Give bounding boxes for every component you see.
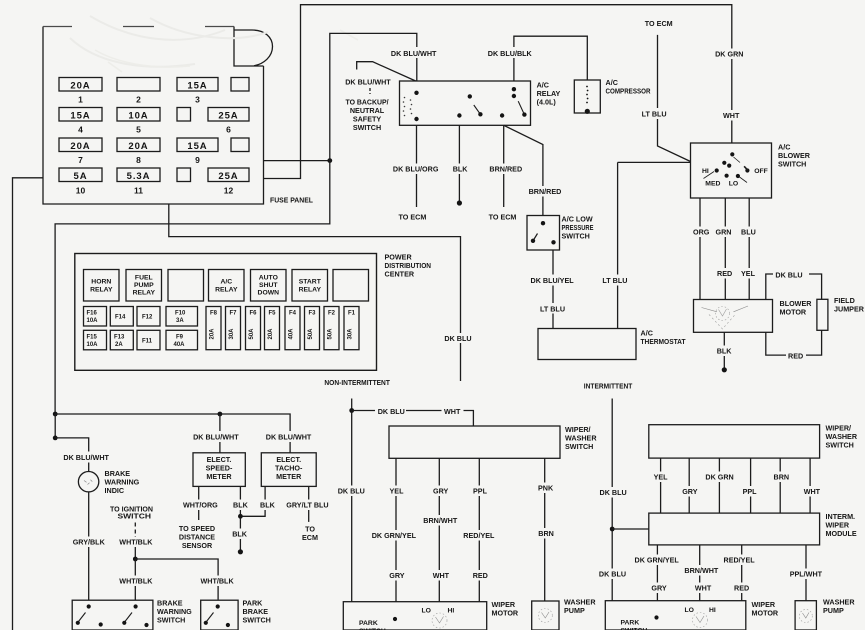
label YEL — [388, 486, 405, 497]
svg-text:A/C: A/C — [220, 279, 232, 286]
svg-text:10A: 10A — [87, 342, 99, 348]
svg-text:DK BLU/YEL: DK BLU/YEL — [531, 276, 575, 285]
label BLK tachometer — [258, 500, 276, 511]
label LT BLU upper — [639, 108, 670, 119]
label POWER DISTRIBUTION CENTER — [385, 253, 432, 279]
svg-text:WHT: WHT — [433, 571, 450, 580]
label RED low — [471, 570, 489, 581]
label BRAKE WARNING SWITCH — [157, 599, 192, 625]
svg-text:RELAY: RELAY — [133, 290, 156, 297]
label BLOWER MOTOR — [780, 299, 813, 317]
svg-text:F11: F11 — [142, 338, 153, 344]
node corner dot — [53, 436, 58, 441]
svg-text:SWITCH: SWITCH — [353, 123, 381, 132]
wire node down left down distribution — [55, 161, 330, 414]
svg-text:HI: HI — [448, 608, 455, 615]
svg-text:LO: LO — [729, 180, 738, 187]
label RED jumper — [786, 351, 806, 362]
compressor internal dotted — [586, 86, 588, 104]
svg-text:4: 4 — [78, 125, 83, 135]
label DK BLU/WHT top run — [388, 47, 438, 58]
label BLK — [451, 164, 468, 175]
label FIELD JUMPER — [834, 296, 865, 314]
svg-text:BLK: BLK — [232, 530, 248, 539]
svg-text:FUEL: FUEL — [135, 275, 153, 282]
label PARK BRAKE SWITCH — [243, 599, 271, 625]
svg-text:HORN: HORN — [91, 279, 111, 286]
label DK BLU/BLK — [485, 47, 534, 58]
label DK GRN/YEL right — [632, 555, 679, 566]
wire relay BLK ground — [458, 125, 460, 201]
wire module to wiper motor GRY — [656, 545, 658, 601]
wire BLK speedometer ground — [239, 486, 241, 549]
thermostat A/C THERMOSTAT box — [538, 329, 636, 360]
svg-text:20A: 20A — [210, 328, 216, 340]
svg-text:LT BLU: LT BLU — [642, 110, 667, 119]
label RED right low — [732, 583, 750, 594]
label BRAKE WARNING INDIC — [105, 469, 140, 495]
fuse F3 50A — [305, 307, 320, 350]
op A/C relay box — [400, 81, 531, 125]
label BRN/RED lower — [526, 186, 561, 197]
svg-text:F9: F9 — [176, 334, 184, 340]
svg-text:DK GRN/YEL: DK GRN/YEL — [635, 556, 680, 565]
svg-text:BLK: BLK — [453, 165, 469, 174]
label WHT right low — [693, 583, 712, 594]
svg-text:(4.0L): (4.0L) — [537, 98, 557, 107]
fuse 1 20A — [59, 78, 102, 105]
label DK GRN/YEL — [370, 530, 417, 541]
label RED/YEL right — [721, 555, 755, 566]
svg-text:2A: 2A — [115, 342, 123, 348]
svg-text:WHT/ORG: WHT/ORG — [183, 501, 218, 510]
fuse F12 — [137, 307, 160, 327]
fuse F6 50A — [246, 307, 261, 350]
wire GRY to wiper motor — [438, 458, 440, 601]
svg-text:DK GRN: DK GRN — [715, 50, 743, 59]
fuse panel outline — [43, 16, 358, 204]
svg-text:WHT/BLK: WHT/BLK — [119, 577, 153, 586]
svg-text:MOTOR: MOTOR — [780, 308, 807, 317]
wire low pressure switch to thermostat — [552, 250, 554, 329]
wire module to wiper motor RED — [741, 545, 743, 601]
A/C relay right contact — [500, 87, 527, 118]
dashed wire to backup switch — [369, 88, 371, 94]
svg-text:HI: HI — [709, 607, 716, 614]
svg-text:F14: F14 — [115, 315, 126, 321]
svg-text:GRY: GRY — [682, 487, 698, 496]
svg-text:METER: METER — [206, 472, 232, 481]
svg-text:GRY/LT BLU: GRY/LT BLU — [286, 501, 328, 510]
fuse row2 small — [177, 108, 191, 122]
svg-text:F12: F12 — [142, 315, 153, 321]
label GRY right — [680, 486, 698, 497]
label A/C RELAY (4.0L) — [537, 81, 561, 107]
label WHT/ORG — [181, 500, 219, 511]
relay AUTO SHUT DOWN — [251, 270, 287, 302]
wire branch to speedometer — [219, 414, 221, 453]
svg-text:TO ECM: TO ECM — [399, 213, 427, 222]
svg-text:DK BLU: DK BLU — [338, 487, 365, 496]
wire DK BLU WHT across to wiper washer switch — [352, 411, 474, 427]
wiper motor right internals — [621, 607, 716, 630]
washer pump right glyph — [799, 610, 812, 623]
svg-text:TO ECM: TO ECM — [489, 213, 517, 222]
wire fuse panel left to border — [13, 178, 44, 630]
node junction dot — [327, 158, 332, 163]
svg-text:SHUT: SHUT — [259, 282, 278, 289]
svg-text:15A: 15A — [70, 110, 90, 121]
svg-text:DK GRN/YEL: DK GRN/YEL — [372, 531, 417, 540]
svg-text:NON-INTERMITTENT: NON-INTERMITTENT — [324, 378, 390, 387]
switch WIPER/WASHER SWITCH right box — [649, 425, 820, 458]
ground terminal dot BLK meters — [238, 549, 243, 554]
svg-text:THERMOSTAT: THERMOSTAT — [641, 337, 687, 346]
label WIPER/WASHER SWITCH right — [826, 424, 858, 450]
svg-text:RED/YEL: RED/YEL — [463, 531, 495, 540]
compressor terminal dot — [585, 109, 590, 114]
svg-text:12: 12 — [224, 186, 234, 196]
wire module to wiper motor WHT — [699, 545, 701, 601]
svg-text:20A: 20A — [70, 141, 90, 152]
svg-text:PPL/WHT: PPL/WHT — [790, 570, 823, 579]
svg-text:F13: F13 — [114, 334, 125, 340]
power distribution center box — [75, 254, 377, 371]
node ignition junction dot — [133, 557, 138, 562]
svg-text:INDIC: INDIC — [105, 486, 125, 495]
fuse F2 50A — [324, 307, 339, 350]
wire ORG blower switch to motor — [699, 198, 701, 300]
svg-text:GRN: GRN — [716, 228, 732, 237]
A/C relay internal coil dots — [403, 97, 413, 117]
wiper motor right glyph — [693, 613, 708, 628]
node wiper DK BLU junction — [349, 408, 354, 413]
svg-text:RED: RED — [788, 352, 803, 361]
label WHT/BLK upper — [117, 537, 154, 548]
svg-text:MOTOR: MOTOR — [492, 609, 519, 618]
wire relay BRN/RED to ECM — [503, 125, 505, 207]
motor WIPER MOTOR left box — [343, 602, 486, 630]
svg-text:JUMPER: JUMPER — [834, 305, 865, 314]
blower switch contact dots — [715, 152, 750, 178]
module INTERM WIPER MODULE box — [649, 513, 820, 545]
label DK BLU/YEL — [528, 275, 575, 286]
wire ignition to junction — [134, 536, 136, 559]
svg-text:SWITCH: SWITCH — [826, 441, 854, 450]
label PPL right — [741, 486, 759, 497]
svg-text:LO: LO — [685, 607, 694, 614]
svg-text:GRY: GRY — [651, 584, 667, 593]
wire BLK tachometer join — [240, 486, 265, 516]
label TO IGNITION SWITCH — [110, 505, 153, 521]
svg-text:F5: F5 — [268, 311, 276, 317]
label BRN right — [771, 472, 789, 483]
svg-text:WHT/BLK: WHT/BLK — [119, 538, 153, 547]
fuse F14 — [110, 307, 133, 327]
label TO BACKUP/NEUTRAL SAFETY SWITCH — [346, 98, 389, 133]
label BLK speedometer — [231, 500, 249, 511]
svg-text:RELAY: RELAY — [299, 287, 322, 294]
label GRN — [714, 227, 734, 238]
svg-text:DK BLU/WHT: DK BLU/WHT — [266, 433, 312, 442]
wire junction to brake warning switch — [134, 559, 136, 600]
svg-text:PUMP: PUMP — [564, 606, 585, 615]
svg-text:20A: 20A — [128, 141, 148, 152]
label DK GRN — [713, 49, 745, 60]
label BRN/WHT right — [682, 565, 719, 576]
svg-text:YEL: YEL — [741, 269, 756, 278]
wire junction to park brake switch — [135, 559, 218, 600]
svg-text:DK BLU/WHT: DK BLU/WHT — [345, 78, 391, 87]
switch PARK BRAKE SWITCH box — [201, 600, 238, 630]
svg-text:F7: F7 — [229, 311, 237, 317]
wire fuse panel right upper to node — [264, 160, 330, 162]
svg-text:RELAY: RELAY — [215, 287, 238, 294]
svg-text:5A: 5A — [74, 171, 88, 182]
svg-text:BRN: BRN — [538, 529, 554, 538]
labels HI MED LO OFF — [702, 168, 768, 188]
svg-text:20A: 20A — [268, 328, 274, 340]
ground terminal dot blower — [722, 367, 727, 372]
svg-text:GRY/BLK: GRY/BLK — [73, 538, 106, 547]
label A/C LOW PRESSURE SWITCH — [562, 215, 594, 241]
svg-text:1: 1 — [78, 95, 83, 105]
svg-text:BLU: BLU — [741, 228, 756, 237]
node BLK junction dot — [238, 514, 243, 519]
label ORG — [691, 227, 710, 238]
meter ELECT. TACHOMETER box — [261, 453, 316, 487]
label WIPER MOTOR right — [752, 600, 779, 618]
svg-text:WHT: WHT — [804, 487, 821, 496]
svg-text:3A: 3A — [176, 318, 184, 324]
label GRY/LT BLU — [284, 500, 329, 511]
wire YEL to wiper motor — [395, 458, 397, 601]
svg-text:RED/YEL: RED/YEL — [724, 556, 756, 565]
svg-text:F4: F4 — [289, 311, 297, 317]
fuse 9 15A — [177, 138, 218, 165]
fuse F10 3A — [166, 307, 198, 327]
svg-text:30A: 30A — [348, 328, 354, 340]
fuse 4 15A — [59, 108, 102, 135]
svg-text:YEL: YEL — [390, 487, 405, 496]
A/C relay pin dots left — [414, 91, 418, 95]
svg-text:50A: 50A — [308, 328, 314, 340]
svg-text:DK BLU/WHT: DK BLU/WHT — [391, 49, 437, 58]
svg-text:SENSOR: SENSOR — [182, 541, 213, 550]
wiper motor left glyph — [432, 613, 447, 628]
svg-text:GRY: GRY — [389, 571, 405, 580]
svg-text:BLK: BLK — [260, 501, 276, 510]
svg-text:PUMP: PUMP — [134, 282, 154, 289]
svg-text:DOWN: DOWN — [258, 290, 280, 297]
svg-text:5.3A: 5.3A — [127, 171, 151, 182]
svg-text:WHT/BLK: WHT/BLK — [201, 577, 235, 586]
wire DK BLU/BLK to relay and compressor — [514, 36, 587, 81]
wire corner to indicator — [55, 438, 88, 471]
wire stub to backup/neutral safety switch — [357, 62, 416, 81]
label BRN/WHT — [421, 515, 458, 526]
svg-text:MODULE: MODULE — [826, 529, 857, 538]
wire relay split to low pressure switch — [504, 125, 543, 215]
label BLK blower — [715, 346, 735, 357]
label A/C COMPRESSOR — [606, 78, 652, 96]
ground terminal dot BLK — [457, 200, 462, 205]
svg-text:BRN: BRN — [774, 473, 790, 482]
dashed wire from ignition switch — [134, 523, 136, 537]
svg-text:BRN/RED: BRN/RED — [489, 165, 522, 174]
wire DK BLU to field jumper — [766, 274, 822, 300]
wire DK BLU right vertical — [611, 399, 613, 601]
svg-text:9: 9 — [195, 155, 200, 165]
blower motor fan glyph — [702, 306, 749, 329]
svg-text:DK BLU: DK BLU — [444, 334, 471, 343]
svg-text:PPL: PPL — [743, 487, 758, 496]
compressor U2 A/C COMPRESSOR box — [574, 80, 600, 113]
fuse row4 small — [177, 168, 191, 182]
wire module to washer pump PPL/WHT — [805, 545, 807, 601]
wire thermostat link to blower switch — [618, 161, 691, 163]
svg-text:40A: 40A — [289, 328, 295, 340]
svg-text:INTERMITTENT: INTERMITTENT — [584, 382, 633, 391]
svg-text:40A: 40A — [174, 342, 186, 348]
wire to brake warning indicator — [54, 414, 56, 438]
label A/C BLOWER SWITCH — [778, 143, 811, 169]
label GRY — [431, 486, 449, 497]
svg-text:10: 10 — [76, 186, 86, 196]
svg-text:F6: F6 — [249, 311, 257, 317]
svg-text:11: 11 — [134, 186, 143, 196]
washer pump left glyph — [538, 609, 552, 623]
label DK BLU/ORG — [390, 164, 440, 175]
fuse 11 5.3A — [117, 168, 160, 196]
svg-text:PARK: PARK — [359, 620, 378, 627]
svg-text:10A: 10A — [87, 318, 99, 324]
svg-text:PPL: PPL — [473, 487, 488, 496]
svg-text:CENTER: CENTER — [385, 270, 415, 279]
svg-text:FUSE PANEL: FUSE PANEL — [270, 196, 314, 205]
svg-text:OFF: OFF — [754, 168, 768, 175]
label YEL — [739, 268, 757, 279]
fuse 2 — [117, 78, 160, 105]
svg-text:15A: 15A — [187, 80, 207, 91]
indicator BRAKE WARNING INDIC lamp — [78, 472, 98, 492]
node DK BLU module junction — [610, 527, 615, 532]
fuse F8 20A — [206, 307, 221, 350]
label BRN/RED — [487, 164, 522, 175]
label LT BLU low — [538, 303, 568, 314]
svg-text:RED: RED — [473, 571, 488, 580]
label DK BLU horizontal — [375, 406, 406, 417]
wire GRY/LT BLU to ECM — [308, 486, 310, 522]
label GRY low — [387, 570, 405, 581]
label WIPER/WASHER SWITCH left — [565, 425, 597, 451]
relay A/C RELAY — [209, 270, 245, 302]
svg-text:5: 5 — [136, 125, 141, 135]
fuse row1 small — [231, 78, 249, 92]
svg-text:DK BLU: DK BLU — [600, 488, 627, 497]
wire fuse panel lower right up over top to blower switch — [264, 5, 732, 179]
wire WHT/ORG to speed sensor — [198, 486, 200, 520]
svg-text:F15: F15 — [87, 334, 98, 340]
label YEL right — [651, 472, 669, 483]
svg-text:50A: 50A — [328, 328, 334, 340]
label WASHER PUMP right — [823, 598, 855, 616]
fuse F4 40A — [285, 307, 300, 350]
wire WHT switch to module — [809, 458, 811, 513]
fuse 8 20A — [117, 138, 160, 165]
svg-text:START: START — [299, 279, 322, 286]
pump WASHER PUMP left box — [532, 601, 559, 630]
fuse 7 20A — [59, 138, 102, 165]
wiper motor left internals — [359, 608, 454, 628]
svg-text:20A: 20A — [70, 80, 90, 91]
fuse F13 2A — [110, 330, 133, 350]
svg-text:50A: 50A — [249, 328, 255, 340]
svg-text:DK BLU/WHT: DK BLU/WHT — [193, 433, 239, 442]
svg-text:F2: F2 — [328, 311, 336, 317]
wire GRY/BLK indicator to switch — [88, 492, 90, 600]
svg-text:LT BLU: LT BLU — [540, 305, 565, 314]
svg-text:BLK: BLK — [717, 347, 733, 356]
svg-text:2: 2 — [136, 95, 141, 105]
svg-text:BRN/WHT: BRN/WHT — [423, 516, 458, 525]
svg-text:WHT: WHT — [444, 407, 461, 416]
label WHT/BLK right — [198, 576, 236, 587]
label DK BLU right lower — [597, 569, 628, 580]
fuse 3 15A — [177, 78, 218, 105]
node main distribution junction — [53, 412, 58, 417]
low pressure switch contacts — [531, 221, 556, 245]
svg-text:F16: F16 — [87, 311, 98, 317]
svg-text:DK BLU: DK BLU — [599, 570, 626, 579]
svg-text:BRN/RED: BRN/RED — [529, 187, 562, 196]
svg-text:SWITCH: SWITCH — [157, 616, 185, 625]
label WHT — [721, 110, 742, 121]
svg-text:DK BLU/WHT: DK BLU/WHT — [63, 453, 109, 462]
svg-text:DK BLU/BLK: DK BLU/BLK — [488, 49, 533, 58]
fuse F5 20A — [265, 307, 280, 350]
svg-text:DK BLU: DK BLU — [775, 271, 802, 280]
jumper FIELD JUMPER box — [817, 299, 828, 330]
svg-text:DK BLU/ORG: DK BLU/ORG — [393, 165, 439, 174]
svg-text:TO ECM: TO ECM — [645, 19, 673, 28]
relay HORN RELAY — [84, 270, 120, 302]
label PPL — [471, 486, 488, 497]
svg-text:LT BLU: LT BLU — [602, 276, 627, 285]
label LT BLU right — [600, 275, 630, 286]
relay blank2 — [333, 270, 369, 302]
svg-text:MOTOR: MOTOR — [752, 609, 779, 618]
wire PPL to wiper motor — [478, 458, 480, 601]
wire BLU blower switch to motor — [748, 198, 750, 300]
label BLK lower — [230, 529, 249, 540]
wire DK BLU stub above junction — [351, 399, 353, 411]
brake warning switch contacts — [76, 604, 149, 627]
svg-text:SWITCH: SWITCH — [118, 512, 152, 521]
fuse F11 — [137, 330, 160, 350]
label DK BLU/WHT speedometer — [191, 431, 241, 442]
svg-text:AUTO: AUTO — [259, 275, 278, 282]
svg-text:15A: 15A — [187, 141, 207, 152]
label WHT low — [431, 570, 450, 581]
label RED/YEL — [461, 530, 495, 541]
label RED — [715, 268, 733, 279]
svg-text:RED: RED — [717, 269, 732, 278]
switch WIPER/WASHER SWITCH left box — [389, 426, 560, 458]
label WASHER PUMP left — [564, 598, 596, 616]
svg-text:SWITCH: SWITCH — [778, 160, 806, 169]
svg-text:BRN/WHT: BRN/WHT — [684, 566, 719, 575]
